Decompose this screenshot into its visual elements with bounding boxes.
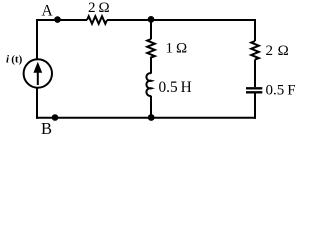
svg-text:2 Ω: 2 Ω [266, 43, 290, 59]
wire top-left segment [36, 19, 87, 21]
node bottom-middle junction dot [148, 114, 155, 121]
current source I1 arrowhead [33, 62, 42, 73]
current source I1 arrow tail [37, 65, 39, 85]
svg-text:2 Ω: 2 Ω [88, 0, 110, 16]
wire middle rail between R and L [150, 59, 152, 74]
wire top-right segment [107, 19, 256, 21]
node A junction dot [54, 16, 61, 23]
node top-middle junction dot [148, 16, 155, 23]
capacitor C1 top plate [246, 87, 262, 89]
svg-text:i (t): i (t) [6, 53, 23, 65]
wire middle rail lower [150, 96, 152, 118]
wire right rail upper [254, 19, 256, 41]
resistor R-right 2ohm zigzag [251, 41, 259, 60]
svg-text:B: B [41, 119, 52, 138]
inductor L1 0.5H coil [146, 73, 151, 96]
resistor R-top 2ohm zigzag [87, 16, 107, 24]
wire right rail middle [254, 60, 256, 88]
wire bottom [36, 117, 256, 119]
wire left rail lower [36, 88, 38, 119]
svg-text:1 Ω: 1 Ω [166, 41, 188, 57]
svg-text:0.5 H: 0.5 H [159, 79, 192, 96]
wire left rail upper [36, 19, 38, 59]
svg-text:A: A [42, 2, 54, 19]
node B junction dot [52, 114, 59, 121]
wire right rail lower [254, 94, 256, 119]
resistor R-mid 1ohm zigzag [147, 39, 155, 59]
current source I1 circle [24, 59, 52, 87]
svg-text:0.5 F: 0.5 F [266, 82, 296, 98]
wire middle rail upper [150, 19, 152, 39]
capacitor C1 bottom plate [246, 91, 262, 93]
